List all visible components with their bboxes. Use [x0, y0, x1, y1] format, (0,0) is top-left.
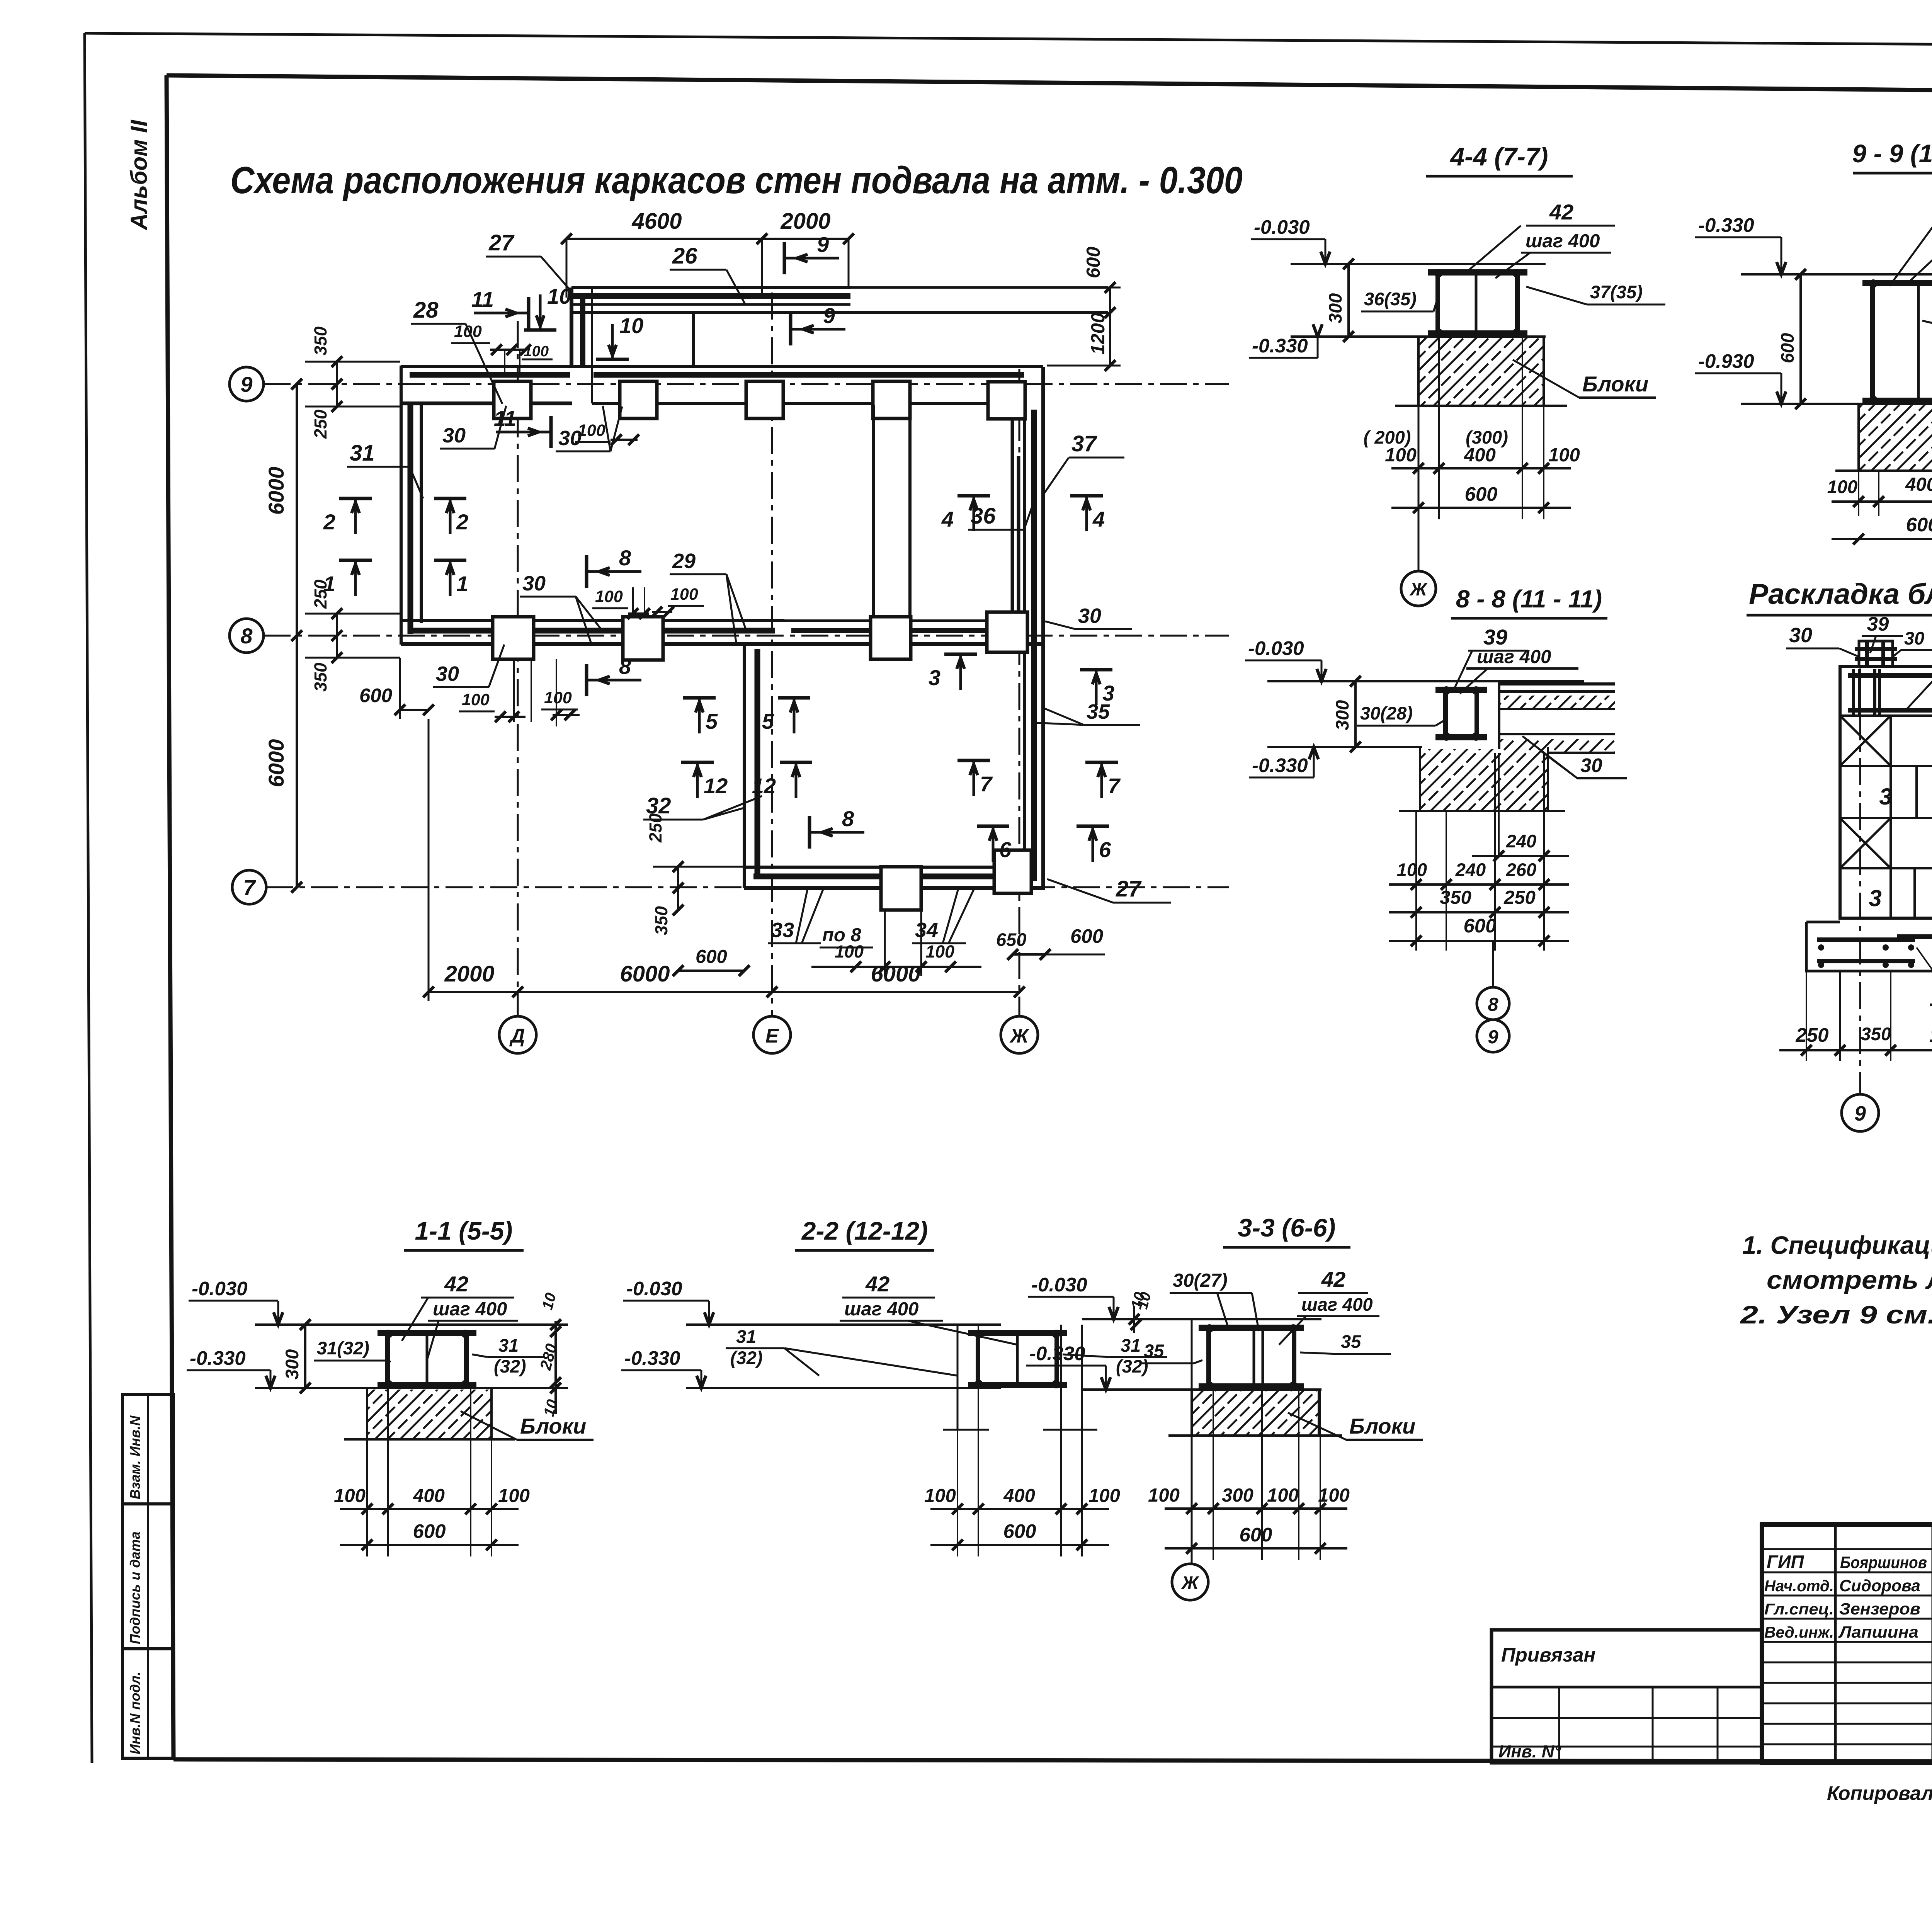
section mark 8 b	[585, 664, 588, 696]
raskladka bottom dim extensions	[1806, 971, 1807, 1061]
svg-text:3: 3	[1102, 681, 1114, 705]
svg-text:Д: Д	[509, 1025, 525, 1047]
section 9-9 block hatch	[1859, 405, 1932, 471]
svg-text:600: 600	[1070, 925, 1103, 947]
svg-text:Нач.отд.: Нач.отд.	[1764, 1577, 1834, 1595]
section 2-2 (12-12) dim 600	[930, 1544, 1109, 1546]
svg-text:600: 600	[1906, 514, 1932, 536]
column axis7 middle	[881, 867, 921, 910]
svg-text:100: 100	[1267, 1485, 1299, 1506]
section 4-4 (7-7) dims row	[1391, 467, 1571, 469]
section marks 7 7	[957, 759, 990, 762]
svg-text:600: 600	[1464, 483, 1497, 505]
sheet outer border	[85, 33, 1932, 48]
left small dims 350 250 at axis 9	[336, 362, 338, 407]
title block column lines	[1834, 1524, 1837, 1763]
section 1-1 (5-5) dim extensions	[366, 1388, 368, 1556]
svg-text:11: 11	[471, 287, 494, 311]
svg-text:8 - 8 (11 - 11): 8 - 8 (11 - 11)	[1456, 585, 1602, 613]
raskladka circle 9	[1842, 1094, 1879, 1131]
section 2-2 inner verticals	[957, 1325, 959, 1430]
svg-text:9: 9	[1854, 1102, 1866, 1125]
svg-text:-0.330: -0.330	[1029, 1342, 1085, 1364]
svg-text:Зензеров: Зензеров	[1839, 1600, 1920, 1618]
left stamp box Podpis	[122, 1504, 173, 1649]
svg-text:31: 31	[736, 1326, 756, 1347]
svg-text:ГИП: ГИП	[1767, 1551, 1804, 1572]
svg-text:30: 30	[1078, 604, 1101, 628]
svg-text:100: 100	[544, 689, 572, 707]
section 3-3 (6-6) rebar cage	[1199, 1325, 1304, 1331]
plan axis 8	[264, 635, 1229, 637]
wall right outer	[1041, 367, 1045, 888]
svg-text:35: 35	[1144, 1340, 1164, 1361]
section 3-3 (6-6) dim 600	[1165, 1547, 1347, 1550]
title block outer	[1762, 1524, 1932, 1763]
svg-text:2-2 (12-12): 2-2 (12-12)	[801, 1216, 928, 1245]
plan axis 9	[264, 383, 1229, 385]
wall left outer	[400, 366, 403, 645]
section mark 8 a	[585, 555, 588, 588]
svg-text:шаг 400: шаг 400	[1301, 1294, 1373, 1315]
svg-text:Схема расположения каркасо: Схема расположения каркасов стен подвала…	[230, 159, 1243, 201]
svg-text:3-3 (6-6): 3-3 (6-6)	[1238, 1213, 1335, 1242]
section 1-1 (5-5) block hatch	[367, 1390, 492, 1439]
svg-text:400: 400	[1905, 474, 1932, 495]
svg-text:шаг 400: шаг 400	[1477, 646, 1551, 667]
svg-text:350: 350	[1440, 887, 1471, 908]
svg-text:100: 100	[454, 322, 482, 341]
section 2-2 (12-12) rebar cage	[968, 1330, 1067, 1336]
plan axis E vertical	[771, 293, 773, 1016]
svg-text:300: 300	[282, 1349, 302, 1379]
svg-text:300: 300	[1332, 700, 1352, 730]
svg-text:2000: 2000	[444, 961, 494, 987]
svg-text:Копировал: Копировал	[1827, 1782, 1932, 1804]
svg-text:31: 31	[1121, 1335, 1141, 1356]
section 1-1 (5-5) 300 dim	[304, 1325, 306, 1388]
svg-text:8: 8	[1488, 994, 1498, 1015]
top dimension 4600 2000	[566, 238, 849, 240]
raskladka bottom dims 250 350 1200 600	[1779, 1049, 1932, 1051]
svg-text:100: 100	[334, 1485, 366, 1506]
svg-text:28: 28	[413, 298, 439, 323]
section 8-8 rebar cage	[1435, 687, 1487, 693]
section marks 5 5	[683, 696, 716, 700]
svg-text:250: 250	[646, 813, 665, 843]
svg-text:35: 35	[1341, 1331, 1361, 1352]
raskladka axis line	[1859, 668, 1861, 1094]
svg-text:4: 4	[1092, 507, 1105, 531]
svg-text:8: 8	[240, 624, 253, 648]
svg-text:(300): (300)	[1466, 427, 1508, 447]
svg-text:36(35): 36(35)	[1364, 289, 1417, 309]
column axis8 E	[871, 617, 911, 659]
left stamp box Vzam	[122, 1395, 173, 1504]
raskladka blocks 3 3 row4	[1913, 868, 1916, 918]
section 2-2 (12-12) dims row	[930, 1508, 1109, 1510]
section 3-3 (6-6) bottom line	[1082, 1388, 1321, 1391]
section 9-9 rebar cage	[1862, 280, 1932, 286]
svg-text:300: 300	[1222, 1485, 1253, 1506]
svg-text:100: 100	[578, 421, 605, 440]
section marks 12 12	[681, 761, 714, 764]
svg-text:30: 30	[1789, 624, 1812, 647]
svg-text:-0.330: -0.330	[1252, 335, 1308, 357]
section 1-1 (5-5) bottom line	[255, 1387, 568, 1389]
svg-text:42: 42	[444, 1272, 468, 1296]
svg-text:37: 37	[1071, 431, 1097, 456]
svg-text:8: 8	[842, 806, 854, 831]
plan axis D vertical	[517, 321, 519, 1016]
section 8-8 dim 600	[1389, 940, 1569, 942]
svg-text:27: 27	[1116, 876, 1142, 902]
svg-text:-0.030: -0.030	[192, 1277, 248, 1300]
raskladka wall outline	[1840, 667, 1932, 918]
section mark 9 top b	[789, 313, 793, 345]
section 4-4 axis line to Zh	[1418, 406, 1420, 570]
svg-text:-0.030: -0.030	[1248, 637, 1304, 659]
svg-text:11: 11	[494, 406, 516, 430]
plan axis Zh vertical	[1019, 369, 1020, 1016]
wall axis8	[401, 619, 784, 622]
svg-text:4: 4	[941, 507, 954, 531]
section 8-8 circle 9	[1477, 1020, 1509, 1052]
svg-text:100: 100	[498, 1485, 530, 1506]
raskladka course lines	[1840, 714, 1932, 717]
svg-text:31: 31	[350, 441, 375, 466]
title block row lines left	[1762, 1548, 1932, 1550]
svg-text:-0.030: -0.030	[626, 1277, 682, 1300]
svg-text:Привязан: Привязан	[1501, 1644, 1595, 1666]
section 8-8 dims 350 250	[1389, 911, 1569, 913]
svg-text:600: 600	[1003, 1520, 1036, 1542]
svg-text:9: 9	[240, 372, 252, 396]
svg-text:400: 400	[1003, 1485, 1035, 1506]
section 3-3 axis line to Zh	[1191, 1319, 1193, 1563]
svg-text:250: 250	[311, 410, 330, 439]
svg-text:8: 8	[619, 546, 631, 570]
svg-text:4600: 4600	[631, 209, 682, 234]
svg-text:350: 350	[651, 906, 671, 935]
svg-text:42: 42	[865, 1272, 889, 1296]
raskladka footing outline	[1806, 922, 1932, 971]
svg-text:(32): (32)	[494, 1356, 526, 1376]
section 1-1 (5-5) dim 600	[340, 1544, 519, 1546]
column axis8 D	[493, 617, 534, 659]
svg-text:-0.030: -0.030	[1031, 1274, 1087, 1296]
svg-text:30: 30	[1580, 754, 1602, 776]
section 2-2 (12-12) dim extensions	[957, 1325, 958, 1556]
section 9-9 dims 100 400 100	[1832, 500, 1932, 503]
section 1-1 (5-5) dims row	[340, 1508, 519, 1510]
svg-text:-0.330: -0.330	[1252, 754, 1308, 776]
section 8-8 circle 8	[1477, 987, 1509, 1020]
section 8-8 dim 240 top	[1472, 855, 1569, 857]
section 9-9 floor line	[1741, 273, 1932, 276]
svg-text:600: 600	[413, 1520, 446, 1542]
section 3-3 (6-6) dims row	[1165, 1507, 1347, 1510]
svg-text:7: 7	[980, 772, 993, 796]
svg-text:100: 100	[1088, 1485, 1120, 1506]
svg-text:600: 600	[1463, 915, 1496, 937]
section 9-9 bottom line	[1741, 403, 1932, 405]
svg-text:Раскладка блоков по Г- Г: Раскладка блоков по Г- Г	[1749, 578, 1932, 610]
svg-text:42: 42	[1321, 1267, 1345, 1291]
column axis9 Zh	[988, 382, 1025, 419]
svg-text:шаг 400: шаг 400	[1526, 231, 1600, 252]
svg-text:6000: 6000	[264, 467, 288, 515]
svg-text:350: 350	[311, 327, 330, 356]
svg-text:350: 350	[1861, 1024, 1891, 1044]
svg-text:Ж: Ж	[1181, 1572, 1199, 1593]
section 8-8 300 dim	[1354, 681, 1357, 747]
svg-text:27: 27	[488, 230, 515, 255]
svg-text:Инв.N подл.: Инв.N подл.	[127, 1672, 143, 1754]
raskladka top course rebar	[1848, 673, 1932, 678]
svg-text:100: 100	[462, 691, 490, 709]
svg-text:240: 240	[1506, 831, 1536, 851]
svg-text:смотреть лист 19.: смотреть лист 19.	[1767, 1266, 1932, 1294]
svg-text:600: 600	[1239, 1524, 1272, 1546]
svg-text:3: 3	[1869, 885, 1881, 911]
section 2-2 (12-12) floor line	[686, 1323, 1001, 1326]
sheet inner frame	[167, 75, 1932, 95]
section 8-8 hatch block	[1420, 749, 1548, 811]
svg-text:3: 3	[929, 665, 940, 690]
section 3-3 circle Zh	[1172, 1564, 1208, 1600]
svg-text:30(28): 30(28)	[1360, 703, 1413, 723]
svg-text:100: 100	[595, 587, 623, 606]
raskladka blocks 3 3 row2	[1915, 766, 1918, 818]
raskladka X block row3	[1840, 818, 1891, 868]
section 9-9 dim 600	[1832, 538, 1932, 540]
section 4-4 circle Zh	[1401, 571, 1436, 606]
column axis8 Zh	[987, 612, 1027, 652]
left attach table	[1492, 1630, 1762, 1763]
section 9-9 dim extensions	[1858, 471, 1859, 516]
svg-text:30: 30	[442, 424, 466, 447]
left small dims 250 350 at axis 8	[336, 614, 338, 658]
svg-text:30: 30	[1904, 628, 1924, 648]
svg-text:37(35): 37(35)	[1590, 282, 1643, 302]
svg-text:2: 2	[323, 510, 335, 534]
svg-text:1. Спецификацию арматурных и: 1. Спецификацию арматурных изделий стен …	[1742, 1231, 1932, 1259]
svg-text:Сидорова: Сидорова	[1839, 1577, 1920, 1595]
svg-text:250: 250	[1503, 887, 1536, 908]
svg-text:9: 9	[1488, 1027, 1498, 1048]
svg-text:2: 2	[456, 510, 468, 534]
svg-text:400: 400	[1464, 445, 1496, 466]
svg-text:240: 240	[1455, 859, 1486, 880]
section 1-1 side dims 10 280 10	[554, 1321, 557, 1414]
svg-text:Лапшина: Лапшина	[1838, 1623, 1918, 1641]
svg-text:Гл.спец.: Гл.спец.	[1764, 1600, 1834, 1618]
svg-text:39: 39	[1867, 613, 1889, 635]
svg-text:100: 100	[524, 343, 549, 360]
svg-text:(32): (32)	[730, 1347, 763, 1368]
section 4-4 (7-7) dim extensions	[1418, 337, 1419, 519]
svg-text:260: 260	[1506, 859, 1536, 880]
svg-text:шаг 400: шаг 400	[433, 1299, 507, 1320]
section 3-3 (6-6) block hatch	[1192, 1391, 1319, 1436]
svg-text:12: 12	[704, 774, 728, 798]
svg-text:30(27): 30(27)	[1173, 1270, 1228, 1291]
svg-text:Вед.инж.: Вед.инж.	[1764, 1623, 1834, 1641]
svg-text:100: 100	[925, 942, 954, 961]
section 8-8 dim extensions	[1415, 811, 1417, 951]
section marks 1 1	[339, 559, 372, 562]
section 8-8 floor line	[1267, 680, 1584, 682]
column axis9 2	[620, 381, 657, 418]
column axis8 door	[623, 617, 663, 660]
svg-text:6: 6	[1099, 837, 1111, 862]
section 1-1 (5-5) rebar cage	[378, 1330, 476, 1336]
svg-text:Ж: Ж	[1009, 1025, 1029, 1047]
svg-text:100: 100	[670, 585, 698, 604]
svg-text:Подпись и дата: Подпись и дата	[127, 1531, 143, 1644]
svg-text:31: 31	[498, 1335, 519, 1356]
svg-text:34: 34	[915, 919, 938, 942]
svg-text:5: 5	[706, 709, 718, 733]
svg-text:Блоки: Блоки	[1582, 372, 1648, 396]
svg-text:350: 350	[311, 663, 330, 692]
section 4-4 (7-7) rebar cage	[1428, 269, 1527, 276]
top-right strip dims 600 1200	[1109, 287, 1111, 366]
section 3-3 (6-6) dim extensions	[1191, 1390, 1192, 1560]
svg-text:26: 26	[672, 243, 697, 269]
svg-text:9 - 9 (10-10): 9 - 9 (10-10)	[1852, 139, 1932, 168]
section mark 8 c	[808, 816, 811, 849]
svg-text:Альбом II: Альбом II	[126, 119, 152, 231]
svg-text:650: 650	[996, 929, 1026, 950]
raskladka top small block	[1859, 641, 1893, 667]
svg-text:250: 250	[1795, 1024, 1828, 1046]
section mark 10 a	[524, 328, 556, 332]
section 1-1 (5-5) floor line	[255, 1323, 568, 1326]
svg-text:100: 100	[924, 1485, 956, 1506]
svg-text:-0.330: -0.330	[624, 1347, 680, 1369]
svg-text:7: 7	[1108, 774, 1121, 798]
column axis9 4	[873, 381, 910, 418]
section 4-4 (7-7) block hatch	[1418, 338, 1544, 406]
svg-text:5: 5	[762, 709, 774, 733]
pilaster E8	[872, 405, 875, 617]
svg-text:100: 100	[1385, 445, 1417, 466]
svg-text:30: 30	[436, 662, 459, 685]
section marks 6 6	[977, 825, 1009, 828]
section 3-3 (6-6) floor line	[1082, 1318, 1321, 1320]
section marks 2 2	[339, 497, 372, 500]
svg-text:6000: 6000	[871, 961, 920, 987]
section 4-4 (7-7) floor line	[1291, 263, 1546, 265]
svg-text:-0.330: -0.330	[190, 1347, 246, 1369]
svg-text:30: 30	[522, 572, 546, 595]
section 4-4 (7-7) dim 600	[1391, 507, 1571, 509]
svg-text:Бояршинов: Бояршинов	[1840, 1553, 1927, 1572]
svg-text:1: 1	[456, 572, 468, 596]
svg-text:( 200): ( 200)	[1364, 427, 1411, 447]
wall axis7 bottom	[744, 866, 1025, 869]
svg-text:6000: 6000	[264, 739, 288, 788]
raskladka X block row1	[1840, 716, 1891, 766]
plan axis 7	[266, 886, 1229, 888]
svg-text:10: 10	[547, 284, 571, 308]
section 2-2 (12-12) bottom line	[686, 1387, 1001, 1389]
section 8-8 axis line	[1492, 941, 1494, 987]
svg-text:100: 100	[835, 942, 864, 961]
svg-text:4-4 (7-7): 4-4 (7-7)	[1449, 142, 1548, 171]
wall middle vertical 32	[743, 644, 746, 888]
wall right rebar lines 36 35	[1011, 419, 1014, 614]
svg-text:Инв. N°: Инв. N°	[1498, 1742, 1561, 1761]
svg-text:1200: 1200	[1088, 313, 1109, 355]
bottom dimension 2000 6000 6000	[429, 991, 1019, 993]
svg-text:31(32): 31(32)	[317, 1338, 369, 1358]
section 8-8 bottom line	[1267, 746, 1422, 748]
svg-text:100: 100	[1548, 445, 1580, 466]
svg-text:33: 33	[771, 919, 794, 942]
svg-text:-0.330: -0.330	[1698, 214, 1754, 236]
svg-text:600: 600	[696, 946, 727, 967]
section mark 9 top a	[783, 242, 786, 274]
section marks 3 3	[944, 653, 977, 656]
svg-text:Блоки: Блоки	[1349, 1414, 1415, 1438]
svg-text:-0.030: -0.030	[1254, 216, 1310, 238]
svg-text:1: 1	[323, 572, 335, 596]
svg-text:100: 100	[1318, 1485, 1350, 1506]
svg-text:600: 600	[1083, 247, 1104, 278]
svg-text:-0.930: -0.930	[1698, 350, 1754, 372]
section mark 11 b	[549, 416, 553, 448]
svg-text:600: 600	[359, 684, 392, 706]
svg-text:1-1 (5-5): 1-1 (5-5)	[415, 1216, 512, 1245]
svg-text:1200: 1200	[1929, 1024, 1932, 1046]
svg-text:100: 100	[1827, 476, 1857, 497]
svg-text:2. Узел 9 см. лист 13.: 2. Узел 9 см. лист 13.	[1739, 1300, 1932, 1329]
svg-text:39: 39	[1483, 625, 1507, 649]
svg-text:Е: Е	[765, 1025, 779, 1047]
svg-text:шаг 400: шаг 400	[844, 1299, 918, 1320]
svg-text:6000: 6000	[620, 961, 670, 987]
wall axis9 top	[401, 365, 1043, 368]
svg-text:600: 600	[1777, 333, 1798, 363]
top strip wall 26	[571, 286, 850, 289]
svg-text:10: 10	[619, 313, 643, 338]
section marks 4 4	[957, 494, 990, 498]
svg-text:Взам. Инв.N: Взам. Инв.N	[127, 1415, 143, 1499]
bottom-left dim 600	[400, 709, 429, 711]
svg-text:7: 7	[243, 875, 256, 900]
svg-text:2000: 2000	[780, 209, 830, 234]
section 9-9 dim 600 vertical	[1799, 274, 1802, 404]
svg-text:Ж: Ж	[1409, 579, 1428, 599]
section 4-4 (7-7) bottom line	[1291, 335, 1546, 338]
svg-text:6: 6	[999, 837, 1012, 862]
column axis9 D	[494, 381, 531, 418]
svg-text:12: 12	[752, 774, 776, 798]
svg-text:400: 400	[413, 1485, 445, 1506]
svg-text:42: 42	[1549, 200, 1573, 224]
svg-text:9: 9	[817, 232, 829, 257]
svg-text:100: 100	[1148, 1485, 1180, 1506]
raskladka footing rebar	[1817, 937, 1915, 942]
column axis7 Zh	[994, 850, 1031, 893]
svg-text:100: 100	[1397, 859, 1427, 880]
section mark 11 a	[527, 297, 531, 329]
left axis dimension line 6000+6000	[296, 384, 298, 887]
section 8-8 dims 100 240 260	[1389, 883, 1569, 886]
